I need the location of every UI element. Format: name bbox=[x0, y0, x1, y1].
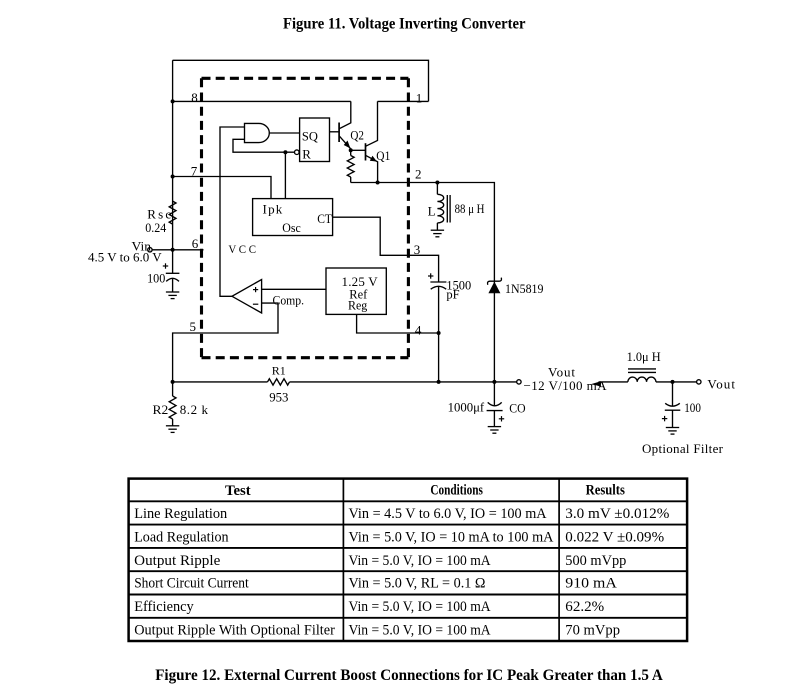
svg-text:Figure 12. External Current Bo: Figure 12. External Current Boost Connec… bbox=[155, 667, 663, 684]
wire latch Q to Q2 base bbox=[330, 131, 340, 133]
svg-text:Load Regulation: Load Regulation bbox=[134, 530, 229, 546]
table row line 2 bbox=[129, 524, 688, 526]
wire pin5 line / comparator inverting input bbox=[173, 303, 278, 382]
table row line 5 bbox=[129, 594, 688, 596]
wire pin4 line from reference bbox=[357, 314, 439, 333]
svg-text:2: 2 bbox=[415, 166, 422, 181]
terminal Vin bbox=[148, 248, 152, 252]
svg-text:Ipk: Ipk bbox=[263, 202, 283, 217]
svg-text:Short Circuit Current: Short Circuit Current bbox=[134, 576, 249, 592]
node junction dot pin8/Vin vertical bbox=[171, 99, 175, 103]
svg-text:100: 100 bbox=[684, 400, 701, 415]
table frame bbox=[129, 479, 688, 641]
ground input cap bbox=[166, 292, 179, 299]
wire filter to Vout terminal bbox=[656, 381, 697, 383]
ground inductor L bbox=[431, 230, 444, 237]
svg-text:Test: Test bbox=[225, 483, 251, 499]
node junction dot R line bbox=[283, 150, 287, 154]
svg-text:Q2: Q2 bbox=[350, 127, 364, 142]
capacitor CO 1000uF bbox=[488, 402, 502, 405]
svg-text:8: 8 bbox=[191, 90, 198, 105]
wire to filter bbox=[599, 381, 628, 383]
resistor Q2 emitter to pin2 bbox=[350, 150, 352, 155]
node junction dot rail left bbox=[171, 380, 175, 384]
svg-text:−12 V/100 mA: −12 V/100 mA bbox=[524, 378, 608, 393]
node junction dot pin7 bbox=[171, 175, 175, 179]
node junction dot inductor L bbox=[435, 181, 439, 185]
wire Vin to pin6 bbox=[152, 249, 203, 251]
latch box S/R bbox=[300, 118, 330, 162]
node junction dot CO bbox=[492, 380, 496, 384]
capacitor CT 1500pF bbox=[430, 281, 446, 283]
transistor Q2 bbox=[338, 123, 340, 143]
op-amp comparator bbox=[232, 280, 262, 314]
svg-text:Efficiency: Efficiency bbox=[134, 599, 194, 615]
node junction dot Q1 emitter pin2 bbox=[376, 181, 380, 185]
node junction dot Q2 emitter bbox=[349, 148, 353, 152]
wire pin2 line bbox=[351, 183, 495, 382]
capacitor 100 filter bbox=[672, 382, 674, 406]
label + filter bbox=[662, 416, 667, 421]
IC boundary (dashed box) U1 MC34063 bbox=[202, 78, 409, 357]
svg-text:1000μf: 1000μf bbox=[448, 399, 485, 414]
wire comparator output to AND gate bbox=[220, 127, 245, 296]
wire R line down to oscillator bbox=[284, 152, 286, 198]
inverter bubble on R input bbox=[295, 150, 300, 155]
svg-text:Reg: Reg bbox=[348, 298, 368, 313]
svg-text:Conditions: Conditions bbox=[430, 483, 483, 499]
svg-text:Vin = 5.0 V, IO = 100 mA: Vin = 5.0 V, IO = 100 mA bbox=[349, 622, 492, 638]
svg-text:1.0μ H: 1.0μ H bbox=[627, 349, 661, 364]
inductor 1.0uH filter bbox=[628, 377, 656, 382]
table row line 3 bbox=[129, 547, 688, 549]
table column line 1 bbox=[342, 479, 344, 641]
wire pin7 line to oscillator bbox=[173, 177, 271, 199]
svg-text:Vout: Vout bbox=[548, 364, 575, 379]
resistor R1 bbox=[268, 379, 290, 385]
wire Q2 emitter to Q1 base bbox=[351, 149, 366, 151]
terminal -12V output bbox=[517, 380, 521, 384]
svg-text:Optional Filter: Optional Filter bbox=[642, 441, 724, 456]
svg-text:R1: R1 bbox=[272, 364, 286, 378]
oscillator box Ipk Osc bbox=[253, 199, 333, 236]
wire top loop pin8 to pin1 bbox=[173, 60, 429, 101]
svg-text:Figure 11. Voltage Inverting C: Figure 11. Voltage Inverting Converter bbox=[283, 15, 526, 32]
svg-text:6: 6 bbox=[192, 236, 199, 251]
svg-text:953: 953 bbox=[269, 389, 288, 404]
wire output rail to terminal bbox=[290, 381, 517, 383]
svg-text:CO: CO bbox=[509, 400, 525, 415]
wire pin1 segment bbox=[378, 100, 429, 102]
transistor Q1 bbox=[365, 143, 367, 160]
svg-text:Osc: Osc bbox=[282, 220, 301, 235]
reference regulator box 1.25V bbox=[326, 268, 386, 314]
resistor Rsc bbox=[169, 201, 176, 224]
label + input cap bbox=[163, 263, 168, 268]
arrow current direction bbox=[592, 381, 601, 386]
wire AND output to latch S bbox=[269, 132, 299, 134]
svg-text:100: 100 bbox=[147, 270, 165, 285]
svg-text:Output Ripple: Output Ripple bbox=[134, 553, 220, 569]
terminal Vout filtered bbox=[697, 380, 701, 384]
table column line 2 bbox=[558, 479, 560, 641]
svg-text:0.022 V ±0.09%: 0.022 V ±0.09% bbox=[565, 530, 664, 546]
resistor R2 bbox=[172, 382, 174, 396]
svg-text:3: 3 bbox=[414, 242, 421, 257]
svg-text:SQ: SQ bbox=[302, 128, 319, 143]
wire Vin left vertical bbox=[172, 60, 174, 250]
node junction dot pin4/cap bbox=[437, 331, 441, 335]
svg-text:pF: pF bbox=[446, 286, 459, 301]
svg-text:Output Ripple With Optional Fi: Output Ripple With Optional Filter bbox=[134, 622, 335, 638]
svg-text:Vin = 5.0 V, IO = 100 mA: Vin = 5.0 V, IO = 100 mA bbox=[349, 599, 492, 615]
svg-text:Vout: Vout bbox=[707, 376, 735, 391]
svg-text:4.5 V to 6.0 V: 4.5 V to 6.0 V bbox=[88, 250, 162, 265]
label + 1500pF bbox=[428, 273, 433, 278]
svg-text:L: L bbox=[428, 203, 436, 218]
inductor L 88uH bbox=[436, 183, 438, 195]
table row line 6 bbox=[129, 617, 688, 619]
svg-text:Comp.: Comp. bbox=[273, 292, 305, 307]
svg-text:Q1: Q1 bbox=[376, 148, 390, 163]
node junction dot filter cap bbox=[671, 380, 675, 384]
svg-text:3.0 mV ±0.012%: 3.0 mV ±0.012% bbox=[565, 506, 669, 522]
svg-text:Vin = 5.0 V, RL = 0.1 Ω: Vin = 5.0 V, RL = 0.1 Ω bbox=[349, 576, 486, 592]
svg-text:R: R bbox=[302, 147, 311, 162]
capacitor 100uF input bbox=[172, 250, 174, 273]
svg-text:88 μ H: 88 μ H bbox=[455, 201, 485, 216]
AND gate bbox=[245, 123, 270, 142]
wire comparator plus input from reference bbox=[262, 288, 326, 290]
svg-text:70 mVpp: 70 mVpp bbox=[565, 622, 620, 638]
svg-text:7: 7 bbox=[191, 164, 198, 179]
svg-text:R2: R2 bbox=[153, 402, 169, 417]
diode D1 1N5819 Schottky bbox=[487, 278, 501, 285]
svg-text:4: 4 bbox=[415, 323, 422, 338]
svg-text:500 mVpp: 500 mVpp bbox=[565, 553, 626, 569]
table row line 4 bbox=[129, 570, 688, 572]
svg-text:0.24: 0.24 bbox=[145, 220, 166, 235]
label + CO bbox=[499, 416, 504, 421]
svg-text:Line Regulation: Line Regulation bbox=[134, 506, 228, 522]
wire output rail R1 left bbox=[173, 381, 268, 383]
wire oscillator to AND input and latch R bbox=[233, 139, 295, 152]
svg-text:1: 1 bbox=[416, 90, 423, 105]
node junction dot pin4 rail bbox=[437, 380, 441, 384]
node junction dot Vin bbox=[171, 248, 175, 252]
table row line 1 bbox=[129, 500, 688, 502]
svg-text:V C C: V C C bbox=[228, 242, 256, 256]
svg-text:Results: Results bbox=[586, 483, 626, 499]
svg-text:1N5819: 1N5819 bbox=[505, 281, 544, 296]
svg-text:910 mA: 910 mA bbox=[565, 576, 617, 592]
svg-text:62.2%: 62.2% bbox=[565, 599, 604, 615]
svg-text:5: 5 bbox=[190, 319, 197, 334]
svg-text:CT: CT bbox=[317, 211, 332, 226]
svg-text:8.2 k: 8.2 k bbox=[180, 402, 209, 417]
svg-text:Vin = 4.5 V to 6.0 V, IO = 100: Vin = 4.5 V to 6.0 V, IO = 100 mA bbox=[349, 506, 548, 522]
ground R2 bbox=[166, 426, 179, 433]
wire pin8 rail bbox=[173, 100, 351, 102]
svg-text:Vin = 5.0 V, IO = 100 mA: Vin = 5.0 V, IO = 100 mA bbox=[349, 553, 492, 569]
ground CO bbox=[488, 427, 501, 434]
svg-text:Vin = 5.0 V, IO = 10 mA to 100: Vin = 5.0 V, IO = 10 mA to 100 mA bbox=[349, 530, 554, 546]
wire oscillator CT to pin3 bbox=[333, 217, 439, 282]
ground filter bbox=[666, 428, 679, 435]
